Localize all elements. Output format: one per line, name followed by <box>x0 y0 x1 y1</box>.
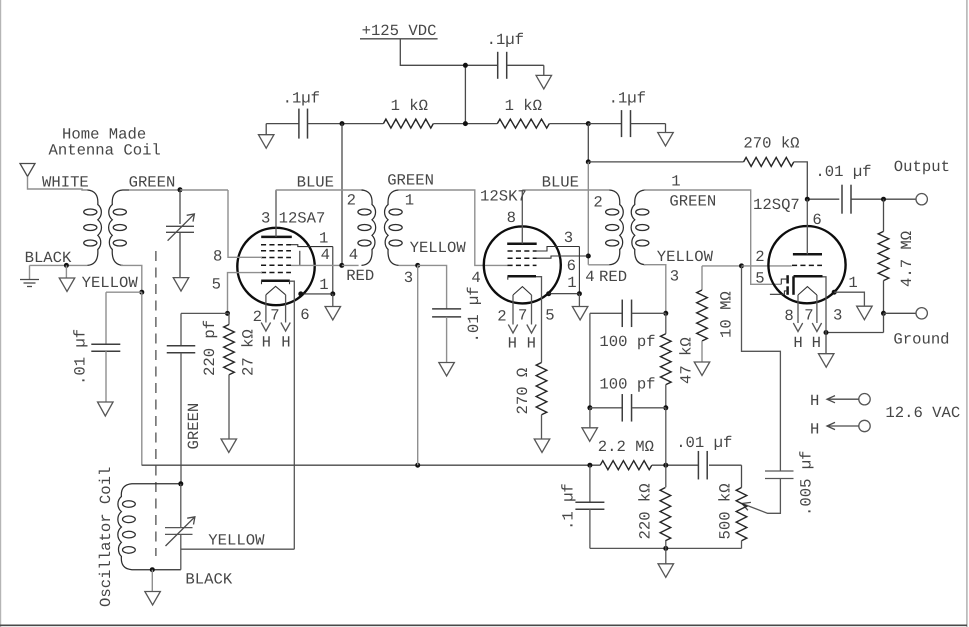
svg-text:YELLOW: YELLOW <box>208 532 265 550</box>
svg-text:GREEN: GREEN <box>129 173 176 191</box>
svg-text:1: 1 <box>567 274 576 292</box>
svg-text:Antenna Coil: Antenna Coil <box>49 142 161 160</box>
svg-text:47 kΩ: 47 kΩ <box>678 337 696 384</box>
svg-text:YELLOW: YELLOW <box>410 239 467 257</box>
svg-text:7: 7 <box>270 307 279 325</box>
svg-text:4: 4 <box>321 246 330 264</box>
svg-text:H: H <box>281 333 290 351</box>
svg-text:.1µf: .1µf <box>487 31 524 49</box>
svg-text:2.2 MΩ: 2.2 MΩ <box>598 438 654 456</box>
svg-text:1: 1 <box>405 192 414 210</box>
svg-text:4.7 MΩ: 4.7 MΩ <box>898 231 916 287</box>
svg-text:4: 4 <box>349 246 358 264</box>
svg-text:BLACK: BLACK <box>185 571 232 589</box>
svg-text:3: 3 <box>564 229 573 247</box>
svg-text:RED: RED <box>346 267 374 285</box>
svg-text:.1µf: .1µf <box>609 89 646 107</box>
svg-text:H: H <box>812 334 821 352</box>
svg-text:H: H <box>810 392 819 410</box>
svg-text:27 kΩ: 27 kΩ <box>240 329 258 376</box>
svg-text:8: 8 <box>213 248 222 266</box>
svg-text:2: 2 <box>253 308 262 326</box>
svg-text:.1µf: .1µf <box>283 89 320 107</box>
svg-text:1: 1 <box>319 276 328 294</box>
svg-text:12SQ7: 12SQ7 <box>753 196 800 214</box>
svg-text:5: 5 <box>755 270 764 288</box>
svg-text:270 kΩ: 270 kΩ <box>743 135 799 153</box>
svg-text:100 pf: 100 pf <box>599 375 655 393</box>
svg-text:4: 4 <box>585 268 594 286</box>
svg-text:6: 6 <box>300 306 309 324</box>
svg-text:.01 µf: .01 µf <box>676 434 732 452</box>
svg-text:12SA7: 12SA7 <box>279 209 326 227</box>
svg-text:+125 VDC: +125 VDC <box>362 22 437 40</box>
svg-text:1: 1 <box>671 172 680 190</box>
svg-text:12.6 VAC: 12.6 VAC <box>885 404 960 422</box>
svg-text:1: 1 <box>848 274 857 292</box>
svg-text:H: H <box>810 421 819 439</box>
svg-text:3: 3 <box>261 209 270 227</box>
svg-text:1: 1 <box>319 230 328 248</box>
svg-text:2: 2 <box>497 308 506 326</box>
svg-text:1 kΩ: 1 kΩ <box>391 97 428 115</box>
svg-text:5: 5 <box>212 275 221 293</box>
svg-text:4: 4 <box>471 269 480 287</box>
svg-text:2: 2 <box>347 192 356 210</box>
svg-text:8: 8 <box>784 307 793 325</box>
svg-text:H: H <box>262 333 271 351</box>
svg-text:8: 8 <box>507 209 516 227</box>
svg-text:YELLOW: YELLOW <box>657 248 714 266</box>
svg-text:5: 5 <box>545 306 554 324</box>
svg-text:.1 µf: .1 µf <box>560 483 578 530</box>
svg-text:.01 µf: .01 µf <box>465 286 483 342</box>
svg-text:6: 6 <box>812 211 821 229</box>
svg-text:220 pf: 220 pf <box>201 320 219 376</box>
svg-text:7: 7 <box>804 307 813 325</box>
svg-text:6: 6 <box>567 257 576 275</box>
svg-text:H: H <box>793 334 802 352</box>
svg-text:220 kΩ: 220 kΩ <box>637 483 655 539</box>
svg-text:500 kΩ: 500 kΩ <box>717 483 735 539</box>
svg-text:12SK7: 12SK7 <box>480 188 527 206</box>
svg-text:RED: RED <box>599 268 627 286</box>
svg-text:270 Ω: 270 Ω <box>514 368 532 415</box>
svg-text:Oscillator Coil: Oscillator Coil <box>97 467 115 607</box>
svg-text:3: 3 <box>670 267 679 285</box>
svg-text:GREEN: GREEN <box>185 403 203 450</box>
svg-text:3: 3 <box>833 307 842 325</box>
svg-text:2: 2 <box>755 248 764 266</box>
svg-text:10 MΩ: 10 MΩ <box>718 291 736 338</box>
svg-text:2: 2 <box>593 194 602 212</box>
svg-text:3: 3 <box>404 269 413 287</box>
svg-text:GREEN: GREEN <box>387 172 434 190</box>
svg-text:1 kΩ: 1 kΩ <box>505 97 542 115</box>
svg-text:YELLOW: YELLOW <box>82 274 139 292</box>
svg-text:BLUE: BLUE <box>297 173 334 191</box>
svg-text:H: H <box>527 334 536 352</box>
svg-text:BLUE: BLUE <box>542 173 579 191</box>
svg-text:7: 7 <box>518 306 527 324</box>
svg-text:.01 µf: .01 µf <box>72 329 90 385</box>
svg-text:Output: Output <box>894 158 950 176</box>
svg-text:Ground: Ground <box>893 330 949 348</box>
svg-text:100 pf: 100 pf <box>599 333 655 351</box>
svg-text:.01 µf: .01 µf <box>815 163 871 181</box>
svg-text:H: H <box>508 334 517 352</box>
svg-text:.005 µf: .005 µf <box>798 450 816 516</box>
svg-text:GREEN: GREEN <box>669 193 716 211</box>
